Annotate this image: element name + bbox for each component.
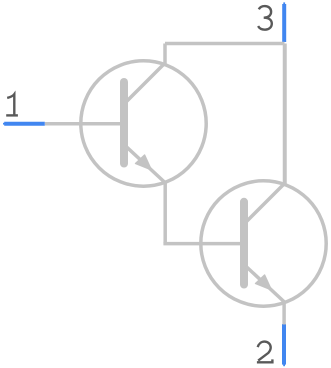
transistor Q2 <box>201 44 326 307</box>
wire: top horizontal (Q1 collector to pin 3 corner) <box>165 42 285 46</box>
Q2 emitter diagonal <box>246 266 285 302</box>
pin 1 label <box>6 94 18 115</box>
pin 1 (blue stub) <box>4 122 45 126</box>
Q1 base bar <box>120 82 128 164</box>
wire: Q1 emitter down <box>163 182 167 243</box>
Q2 circle <box>201 181 326 306</box>
wire: pin1 to Q1 base <box>45 122 122 126</box>
Q1 collector diagonal <box>125 44 165 104</box>
wire: Q2 emitter down to pin 2 <box>282 302 286 324</box>
Q2 base bar <box>240 202 248 285</box>
transistor Q1 <box>81 44 206 187</box>
pin 3 (blue stub) <box>282 4 286 42</box>
pin 2 label <box>257 342 273 363</box>
Q1 circle <box>81 61 206 186</box>
Q1 emitter arrow <box>136 155 152 170</box>
Q2 emitter arrow <box>256 275 272 290</box>
pin 3 label <box>258 6 272 30</box>
pin 2 (blue stub) <box>282 324 286 365</box>
Q2 collector diagonal <box>245 44 285 224</box>
Q1 emitter diagonal <box>126 146 165 182</box>
wire: horizontal to Q2 base <box>163 242 242 246</box>
wire: right vertical (pin 3 corner down to Q2 collector) <box>283 44 287 185</box>
